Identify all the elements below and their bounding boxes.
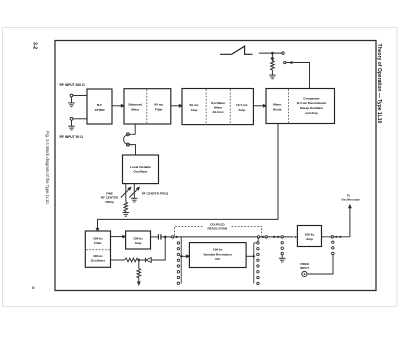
connector J2 (50 ohm input) xyxy=(70,117,87,120)
junction output a xyxy=(335,236,337,238)
svg-text:Diode: Diode xyxy=(273,108,282,112)
switch contact lower xyxy=(284,61,286,63)
svg-text:FREQ: FREQ xyxy=(105,200,114,204)
block Balanced Mixer / 60mc Filter xyxy=(124,89,171,124)
svg-text:10.7-mc: 10.7-mc xyxy=(236,103,248,107)
diagram frame xyxy=(55,41,376,291)
wire amp to capacitor xyxy=(151,236,158,238)
rotary switch right wafer xyxy=(254,242,259,285)
junction lower contact xyxy=(290,61,293,64)
wire bus circle to right wafer top xyxy=(257,238,259,241)
block RF ATTEN xyxy=(87,89,112,124)
svg-text:RF INPUT 50 Ω: RF INPUT 50 Ω xyxy=(60,135,84,139)
svg-text:Amp: Amp xyxy=(238,108,245,112)
ground (sweep resistor) xyxy=(269,75,276,79)
wire arrow atten to mixer xyxy=(112,105,124,107)
svg-text:Fig. 3-1 Block diagram of the: Fig. 3-1 Block diagram of the Type 1L10. xyxy=(45,131,50,205)
block 60mc Amp / Oscillator Mixer / 10.7mc Amp xyxy=(182,89,253,125)
wire comparator output feedback xyxy=(96,124,278,232)
svg-text:Theory of Operation — Type 1L1: Theory of Operation — Type 1L10 xyxy=(376,44,382,124)
svg-text:RF INPUT 600 Ω: RF INPUT 600 Ω xyxy=(60,83,86,87)
wire amp right output xyxy=(322,236,350,238)
diode CR1 xyxy=(139,258,151,263)
connector patch lower xyxy=(126,143,129,146)
svg-text:R-F: R-F xyxy=(97,103,102,107)
wire main video bus xyxy=(165,236,293,238)
label VIDEO INPUT xyxy=(300,262,310,270)
junction bus left xyxy=(176,236,178,238)
junction output b xyxy=(339,236,341,238)
svg-text:Amp: Amp xyxy=(135,241,142,245)
svg-text:Filter: Filter xyxy=(155,108,163,112)
wire resolution box to right wiper xyxy=(246,255,254,257)
svg-text:Ckt: Ckt xyxy=(215,257,220,261)
svg-text:RF CENTER FREQ: RF CENTER FREQ xyxy=(142,192,169,196)
connector patch upper xyxy=(126,133,129,136)
svg-text:60-mc: 60-mc xyxy=(190,103,199,107)
ground (video switch) xyxy=(279,255,286,262)
svg-text:100-kc: 100-kc xyxy=(305,233,315,237)
junction left wafer wiper xyxy=(180,255,182,257)
block 100-kc Amp right xyxy=(297,226,321,247)
svg-text:Variable Resolution: Variable Resolution xyxy=(203,252,232,256)
switch contact bus left xyxy=(172,236,174,238)
svg-text:Oscilloscope: Oscilloscope xyxy=(341,198,360,202)
wire osc right adjust leg xyxy=(133,184,135,198)
block 100-kc Amp left xyxy=(126,231,151,249)
wire video input to contact xyxy=(307,255,333,274)
svg-text:49.3 mc: 49.3 mc xyxy=(213,110,225,114)
svg-text:60 mc: 60 mc xyxy=(154,103,163,107)
svg-text:ATTEN: ATTEN xyxy=(94,108,105,112)
switch contacts ground column xyxy=(281,242,283,255)
resistor R (sweep) xyxy=(271,61,275,70)
dashed coupled resolution box xyxy=(175,226,262,235)
wire node to resistor xyxy=(271,53,273,61)
ground (50 ohm input) xyxy=(68,120,75,130)
wire resistor to ground xyxy=(271,70,273,75)
svg-text:Comparator: Comparator xyxy=(303,96,320,100)
svg-text:11.5-mc Discriminator: 11.5-mc Discriminator xyxy=(296,101,327,105)
wire to oscilloscope xyxy=(349,205,351,237)
junction diode-resistor node xyxy=(138,259,141,262)
block 100-kc Filter / Oscillator xyxy=(85,231,110,267)
label FINE RF CENTER FREQ xyxy=(101,191,119,203)
svg-text:Oscillator: Oscillator xyxy=(211,101,226,105)
switch contact output xyxy=(331,236,333,238)
wire wiper to resolution box xyxy=(181,255,189,257)
svg-text:Mixer: Mixer xyxy=(273,103,282,107)
svg-text:Mixer: Mixer xyxy=(214,105,223,109)
wire patch to oscillator xyxy=(129,145,135,155)
wire mixer to patch connector xyxy=(129,124,135,134)
ground (center freq adjust) xyxy=(131,198,138,202)
svg-text:100-kc: 100-kc xyxy=(213,248,223,252)
sawtooth waveform symbol xyxy=(220,46,253,54)
svg-text:RESOLUTION: RESOLUTION xyxy=(207,227,227,231)
junction video b xyxy=(277,236,279,238)
junction sweep node xyxy=(271,52,274,55)
label To Oscilloscope xyxy=(341,193,360,201)
resistor (fine adjust) xyxy=(124,202,128,211)
wire resistor to oscillator box xyxy=(111,259,125,261)
svg-text:100-kc: 100-kc xyxy=(133,236,143,240)
svg-text:INPUT: INPUT xyxy=(300,266,309,270)
wire sweep input xyxy=(259,52,282,54)
switch contact upper xyxy=(282,52,284,54)
svg-text:Balanced: Balanced xyxy=(129,103,143,107)
wire osc left adjust leg xyxy=(125,184,127,202)
svg-text:Sweep Oscillator: Sweep Oscillator xyxy=(300,106,324,110)
junction video a xyxy=(273,236,275,238)
svg-text:Filter: Filter xyxy=(94,241,102,245)
wire arrow mixer to 60mc amp xyxy=(171,105,182,107)
svg-text:3-2: 3-2 xyxy=(31,42,37,49)
adjust arrow fine xyxy=(121,187,131,197)
patch cable loop xyxy=(124,135,127,144)
svg-text:Amp: Amp xyxy=(306,237,313,241)
capacitor C coupling xyxy=(158,234,161,239)
registration dot xyxy=(32,287,35,290)
junction node A xyxy=(164,236,167,239)
resistor (oscillator output) xyxy=(124,258,138,262)
ground (fine adjust) xyxy=(123,211,130,216)
rotary switch left wafer xyxy=(177,237,181,285)
wire capacitor to node xyxy=(161,236,165,238)
adjust arrow center freq xyxy=(129,187,139,197)
block 100-kc Variable Resolution Ckt xyxy=(189,243,246,268)
svg-text:Oscillator: Oscillator xyxy=(133,169,148,173)
connector VIDEO INPUT xyxy=(302,271,307,276)
resistor (to supply) xyxy=(137,260,141,285)
wire contact to comparator xyxy=(286,63,310,89)
wire arrow 10.7mc amp to mixer diode xyxy=(253,105,266,107)
junction right wafer wiper xyxy=(253,255,255,257)
block Mixer Diode / Comparator Sweep Oscillator xyxy=(266,89,335,124)
svg-text:Oscillator: Oscillator xyxy=(91,259,106,263)
svg-text:Mixer: Mixer xyxy=(131,108,140,112)
svg-text:Local Variable: Local Variable xyxy=(130,165,151,169)
connector J1 (600 ohm input) xyxy=(70,94,87,97)
switch contacts video select column xyxy=(332,241,334,255)
wire arrow filter to 100kc amp xyxy=(111,235,126,237)
label COUPLED RESOLUTION xyxy=(207,222,227,230)
block Local Variable Oscillator xyxy=(123,155,159,184)
switch contact bus right xyxy=(257,236,259,238)
ground (600 ohm input) xyxy=(68,97,75,107)
svg-text:and Amp: and Amp xyxy=(305,111,317,115)
wire node to diode line xyxy=(151,237,165,260)
arrow into 100kc amp right xyxy=(295,236,298,238)
junction bus right xyxy=(262,236,264,238)
svg-text:Amp: Amp xyxy=(191,108,198,112)
switch contact video 1 xyxy=(265,236,267,238)
switch contact video 2 xyxy=(281,236,283,238)
